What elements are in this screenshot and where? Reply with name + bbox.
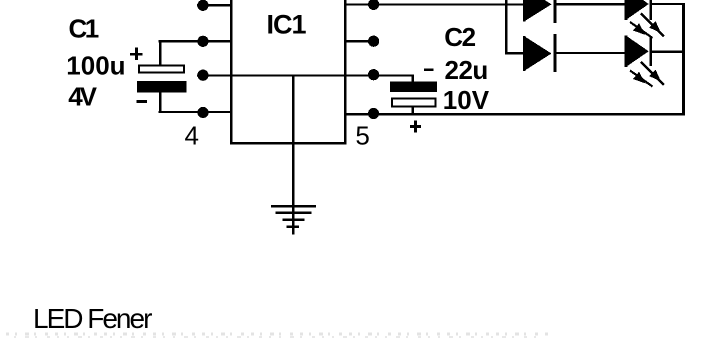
capacitor C1 (137, 41, 187, 112)
D2 emission arrows (630, 14, 664, 39)
title text LED Fener (33, 303, 152, 334)
node pin1 left dot (197, 0, 208, 11)
wire ground stem vertical (292, 75, 294, 234)
wire LED row2 anode (505, 52, 525, 54)
ground symbol (271, 205, 316, 228)
svg-text:LED Fener: LED Fener (33, 303, 152, 334)
C2 value 22u (445, 55, 488, 85)
svg-text:C1: C1 (69, 14, 99, 44)
node pin1 right dot (368, 0, 379, 10)
wire LED anode rail vertical (505, 0, 508, 54)
wire pin1 left stub (197, 4, 232, 6)
svg-text:22u: 22u (445, 55, 488, 85)
pin number 4 label (185, 121, 199, 151)
pin number 5 label (355, 121, 369, 151)
wire pin4 left (C1 bottom to IC) (159, 111, 233, 113)
node pin3 right dot (368, 69, 379, 80)
LED D4 (row2 right) (625, 35, 652, 67)
C1 voltage 4V (68, 82, 97, 112)
C1 plus sign (130, 48, 143, 60)
node pin2 left dot (197, 36, 208, 47)
wire row3 horizontal (pin3 net through IC box to C2) (197, 74, 414, 76)
C2 plus sign (410, 120, 421, 132)
svg-text:100u: 100u (66, 50, 125, 80)
wire row2 to right rail (652, 51, 684, 53)
svg-text:IC1: IC1 (267, 9, 307, 39)
C2 minus sign (424, 68, 434, 71)
wire pin1 right (IC to LED anode rail) (344, 3, 525, 5)
D4 emission arrows (630, 62, 664, 87)
C1 minus sign (136, 100, 147, 103)
node pin4 right dot (368, 108, 379, 119)
C1 value 100u (66, 50, 125, 80)
node pin2 right dot (368, 36, 379, 47)
svg-text:4V: 4V (68, 82, 97, 112)
wire bottom rail (pin5 to LED cathode return) (344, 113, 685, 116)
LED D2 (row1 right, top-clipped) (625, 0, 652, 20)
wire row1 between LEDs (556, 3, 626, 5)
capacitor C2 (390, 75, 437, 114)
wire pin2 left (C1 top to IC) (159, 40, 233, 42)
wire pin2 right stub (344, 40, 375, 42)
svg-text:10V: 10V (443, 85, 490, 115)
IC1 label (267, 9, 307, 39)
wire row2 between LEDs (556, 52, 626, 54)
wire right cathode rail vertical (682, 3, 685, 116)
IC IC1 box outline (230, 0, 346, 144)
cropped text remnants at bottom edge (6, 334, 552, 337)
node pin4 left dot (197, 107, 208, 118)
svg-text:C2: C2 (444, 22, 475, 52)
wire row1 to right rail (652, 3, 684, 5)
svg-text:5: 5 (355, 121, 369, 151)
C2 label (444, 22, 475, 52)
LED D3 (row2 left) (523, 34, 557, 72)
LED D1 (row1 left, top-clipped) (523, 0, 557, 23)
node pin3 left dot (197, 70, 208, 81)
C1 label (69, 14, 99, 44)
svg-text:4: 4 (185, 121, 199, 151)
C2 voltage 10V (443, 85, 490, 115)
